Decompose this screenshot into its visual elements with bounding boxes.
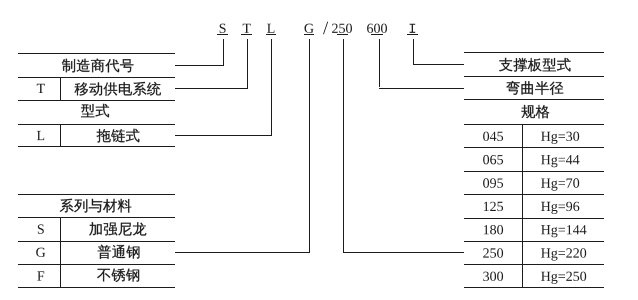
wire left table2 horizontal line 3 — [18, 241, 175, 242]
wire vertical lead from code S — [223, 39, 224, 65]
code cell letter S — [38, 224, 44, 233]
wire horizontal lead 250 to right table — [343, 252, 464, 253]
wire left table1 horizontal line 2 — [18, 77, 175, 78]
code letter L — [267, 24, 274, 33]
code letter I — [410, 24, 416, 33]
code cell letter L — [37, 131, 44, 140]
label spec-header 规格 — [522, 105, 550, 118]
wire left table2 horizontal line 4 — [18, 264, 175, 265]
underline under code S — [217, 34, 228, 35]
label support-plate-type 支撑板型式 — [499, 58, 570, 72]
wire spec table horizontal line 3 — [464, 171, 604, 172]
wire left table1 divider (T row) — [60, 77, 61, 100]
wire vertical lead from code 600 — [379, 39, 380, 87]
wire horizontal lead L to left table — [175, 135, 272, 136]
underline under code T — [241, 34, 252, 35]
label bending-radius 弯曲半径 — [506, 81, 563, 95]
spec value Hg=30 — [541, 132, 579, 144]
wire spec table horizontal line 7 — [464, 264, 604, 265]
wire right header horizontal line 1 — [464, 52, 604, 53]
underline under code G — [304, 34, 315, 35]
spec number 065 — [483, 155, 503, 165]
wire left table1 divider (L row) — [60, 124, 61, 146]
wire spec table divider — [522, 124, 523, 287]
spec value Hg=144 — [541, 225, 586, 237]
code cell letter G — [36, 248, 45, 257]
label reinforced-nylon 加强尼龙 — [89, 222, 146, 235]
wire left table1 horizontal line 5 — [18, 146, 175, 147]
spec number 180 — [484, 225, 503, 234]
wire spec table horizontal line 4 — [464, 194, 604, 195]
wire vertical lead from code L — [271, 39, 272, 135]
spec number 250 — [483, 248, 503, 257]
code number 250 — [332, 24, 352, 33]
spec value Hg=70 — [541, 178, 579, 190]
underline under code I — [407, 34, 418, 35]
wire left table2 horizontal line 2 — [18, 217, 175, 218]
code cell letter T — [37, 84, 45, 93]
wire left table1 horizontal line 4 — [18, 124, 175, 125]
code letter T — [243, 24, 251, 33]
spec value Hg=220 — [541, 248, 586, 260]
wire left table1 horizontal line 3 — [18, 100, 175, 101]
spec number 095 — [483, 178, 503, 188]
wire spec table horizontal line 8 — [464, 287, 604, 288]
spec value Hg=44 — [541, 155, 579, 167]
wire left table2 horizontal line 5 — [18, 287, 175, 288]
wire left table1 horizontal line 1 — [18, 53, 175, 54]
wire spec table horizontal line 5 — [464, 218, 604, 219]
wire horizontal lead T to left table — [175, 88, 248, 89]
wire right header horizontal line 3 — [464, 99, 604, 100]
wire spec table horizontal line 2 — [464, 147, 604, 148]
code number 600 — [367, 24, 387, 33]
wire horizontal lead I to right table — [413, 64, 464, 65]
wire vertical lead from code I — [413, 39, 414, 64]
wire spec table horizontal line 1 — [464, 124, 604, 125]
wire vertical lead from code G — [309, 39, 310, 252]
label mobile-power-system 移动供电系统 — [75, 82, 161, 96]
spec number 300 — [483, 272, 503, 281]
wire left table2 divider — [60, 217, 61, 287]
spec value Hg=250 — [541, 272, 586, 284]
label type-header 型式 — [81, 104, 109, 117]
label stainless-steel 不锈钢 — [97, 269, 139, 282]
code cell letter F — [37, 271, 44, 280]
code letter G — [305, 24, 314, 33]
label manufacturer-code 制造商代号 — [62, 58, 134, 72]
wire spec table horizontal line 6 — [464, 241, 604, 242]
wire horizontal lead G to left table — [175, 252, 310, 253]
underline under code 250 — [337, 34, 348, 35]
label series-material-header 系列与材料 — [60, 199, 132, 213]
label ordinary-steel 普通钢 — [98, 245, 140, 259]
underline under code L — [266, 34, 277, 35]
wire right header horizontal line 2 — [464, 76, 604, 77]
label drag-chain-type 拖链式 — [97, 129, 140, 143]
code letter S — [220, 24, 226, 33]
spec number 045 — [483, 132, 503, 141]
wire horizontal lead S to left table — [175, 65, 224, 66]
underline under code 600 — [371, 34, 383, 35]
spec number 125 — [484, 202, 503, 211]
wire horizontal lead 600 to right table — [379, 88, 464, 89]
wire left table2 horizontal line 1 — [18, 194, 175, 195]
wire vertical lead from code 250 — [343, 39, 344, 252]
code slash — [323, 22, 328, 35]
spec value Hg=96 — [541, 202, 579, 214]
wire vertical lead from code T — [247, 39, 248, 88]
